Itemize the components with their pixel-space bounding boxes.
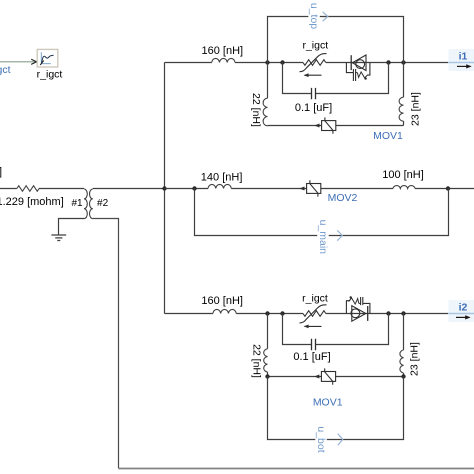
inductor L3 23nH [399,97,403,121]
wire resistor to transformer [39,188,84,190]
inductor L2 22nH [263,98,267,126]
arrow u_bot [338,434,343,446]
variable resistor RV2 arrow curve [300,305,327,323]
svg-text:u_bot: u_bot [315,426,327,452]
IGCT Q1 gate resistor zigzag [357,72,367,78]
svg-text:100 [nH]: 100 [nH] [382,169,424,181]
node bot-right inner [386,311,390,315]
winding #2 [90,189,93,219]
IGCT Q2 cathode bar [367,306,369,321]
arrow u_top [323,12,328,21]
block graph diagonal tick [40,61,44,65]
svg-text:MOV1: MOV1 [373,130,403,142]
svg-text:i1: i1 [459,51,468,63]
svg-text:u_top: u_top [308,3,320,29]
IGCT Q1 bracket right [367,63,370,76]
wire bottom branch main [165,313,449,315]
svg-text:i2: i2 [459,302,468,314]
IGCT Q1 gate capacitor bars [353,69,355,81]
MOV3 arrester symbol [321,372,335,382]
wire snubber loop [283,63,389,94]
node bus-mid junction [162,186,166,190]
block U_src (file read block) [37,49,58,67]
ground [51,235,66,241]
wire winding2 bottom return [93,219,119,469]
svg-text:r_igct: r_igct [0,64,11,76]
highlight i1 [449,49,474,71]
svg-text:r_igct: r_igct [37,69,63,81]
wire bottom return rail [119,468,474,470]
capacitor C1 plates [312,88,316,99]
data wire into block [0,61,36,63]
node bot-left inner [280,311,284,315]
arrow i2 [456,316,467,318]
svg-text:0.1 [uF]: 0.1 [uF] [293,351,330,363]
winding #1 [84,189,87,219]
IGCT Q2 gate stub [359,302,361,304]
svg-text:#2: #2 [97,198,109,209]
IGCT Q1 gate terminal dot [364,77,366,79]
IGCT Q1 circle [356,60,365,69]
wire i1 pale [448,62,474,64]
label u_top background [308,3,320,30]
MOV2 arrester symbol [307,184,321,194]
wire bus vertical [164,63,166,314]
inductor L4 140nH [208,184,231,188]
IGCT Q1 triangle [352,55,366,71]
IGCT Q2 circle [351,309,360,318]
wire left leg bottom [267,314,269,377]
inductor L7 22nH bottom [264,349,268,372]
arrow u_main [337,230,342,240]
wire middle main [165,188,474,190]
node mid-left loop [192,186,196,190]
arrow i1 [457,65,468,67]
MOV1 arrester symbol [322,121,336,131]
arrowhead of data wire [31,59,36,64]
IGCT Q2 gate terminal dot [350,296,352,298]
wire winding1 bottom to ground [59,219,85,235]
wire u_bot loop [268,377,404,440]
wire MOV line [268,125,404,127]
node bot-left outer [265,311,269,315]
inductor L6 160nH bottom [213,309,236,313]
inductor L1 160nH [212,58,235,62]
svg-text:1.229 [mohm]: 1.229 [mohm] [0,196,64,208]
IGCT Q2 bracket left [346,301,350,314]
inductor L5 100nH [393,186,415,189]
IGCT Q1 bracket left [346,63,353,73]
variable resistor RV1 arrow curve [300,54,327,72]
wire u_top loop [268,17,404,63]
svg-text:22 [nH]: 22 [nH] [250,344,262,378]
svg-text:]: ] [0,166,2,178]
IGCT Q2 bracket right [363,303,370,313]
node mid-right loop [446,186,450,190]
IGCT Q2 gate resistor zigzag [349,298,359,304]
wire right leg bottom [403,314,405,377]
node top-right outer [401,60,405,64]
svg-text:23 [nH]: 23 [nH] [410,92,422,126]
wire u_main loop [195,189,449,236]
resistor R1 zigzag [17,186,39,192]
svg-text:160 [nH]: 160 [nH] [201,295,243,307]
IGCT Q1 gate stub [356,72,358,74]
wire right leg [403,63,405,126]
node bot-right outer [401,311,405,315]
wire MOV line bottom [268,376,404,378]
wire snubber loop bottom [283,314,389,345]
node top-left inner [280,60,284,64]
wire winding2 top to node bus [93,188,165,190]
svg-text:r_igct: r_igct [302,293,328,305]
wire left leg [267,63,269,99]
highlight i2 [449,300,474,322]
variable resistor RV2 control arrow [305,325,322,327]
IGCT Q2 triangle [352,306,366,322]
svg-text:160 [nH]: 160 [nH] [202,45,244,57]
svg-text:MOV2: MOV2 [328,192,358,204]
node bot-MOV-right junction [401,374,405,378]
inductor L8 23nH bottom [400,350,404,373]
node bot-MOV-left junction [265,374,269,378]
IGCT Q1 cathode bar [350,55,352,70]
svg-text:23 [nH]: 23 [nH] [409,342,421,376]
svg-text:r_igct: r_igct [302,40,328,52]
capacitor C2 plates [312,339,316,351]
label u_bot background [315,426,327,453]
variable resistor RV1 zigzag [303,60,326,66]
svg-text:22 [nH]: 22 [nH] [250,93,262,127]
svg-text:u_main: u_main [317,220,329,255]
block graph axes [41,52,51,63]
wire from left edge [0,188,17,190]
label u_main background [317,220,329,252]
IGCT Q2 gate capacitor bars [361,297,363,305]
block graph curve [42,55,54,63]
node top-right inner [386,60,390,64]
variable resistor RV2 zigzag [303,311,326,317]
svg-text:140 [nH]: 140 [nH] [201,172,243,184]
wire top branch main [165,62,449,64]
svg-text:#1: #1 [71,198,83,209]
wire i2 pale [448,313,474,315]
node top-left outer [265,60,269,64]
svg-text:MOV1: MOV1 [313,397,343,409]
variable resistor RV1 control arrow [305,74,322,76]
svg-text:0.1 [uF]: 0.1 [uF] [295,102,332,114]
